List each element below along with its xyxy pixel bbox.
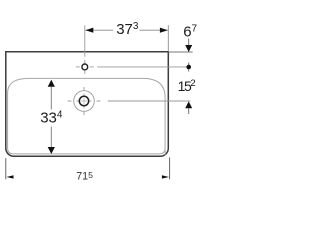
top edge extension to right	[168, 51, 192, 53]
arrow 6.7 down	[185, 45, 192, 52]
dimension line 37.3	[85, 29, 113, 31]
tap hole leader line	[97, 66, 186, 68]
right extension line (37.3 right)	[167, 25, 169, 51]
bottom extension line right	[169, 157, 171, 179]
arrow 37.3 left	[85, 28, 93, 33]
washbasin inner rim	[8, 78, 166, 153]
tap hole cross ticks	[76, 66, 80, 68]
tap hole extension line (37.3 left)	[84, 25, 86, 57]
chain dot	[186, 65, 191, 70]
arrow 15.2 up	[185, 101, 192, 108]
arrow 33.4 down	[48, 147, 55, 154]
stem 33.4 lower	[50, 127, 52, 148]
drain outer circle	[74, 91, 95, 112]
drain inner cross	[81, 100, 88, 102]
tap hole inner cross	[82, 66, 88, 68]
stem 33.4 upper	[50, 87, 52, 110]
drain leader line	[108, 100, 191, 102]
drain cross ticks	[68, 100, 72, 102]
arrow 37.3 right	[160, 28, 168, 33]
stem 15.2	[188, 108, 190, 114]
dot stubs	[188, 63, 190, 72]
arrow 71.5 left	[6, 175, 13, 178]
drain hole	[79, 96, 88, 105]
stem 6.7	[188, 39, 190, 46]
arrow 71.5 right	[162, 175, 169, 178]
drain center cross	[77, 100, 92, 102]
tap hole	[82, 64, 88, 70]
washbasin outer outline	[6, 52, 169, 157]
arrow 33.4 up	[48, 80, 55, 87]
bottom extension line left	[5, 158, 7, 179]
inner rim drop line bottom right	[164, 150, 166, 156]
